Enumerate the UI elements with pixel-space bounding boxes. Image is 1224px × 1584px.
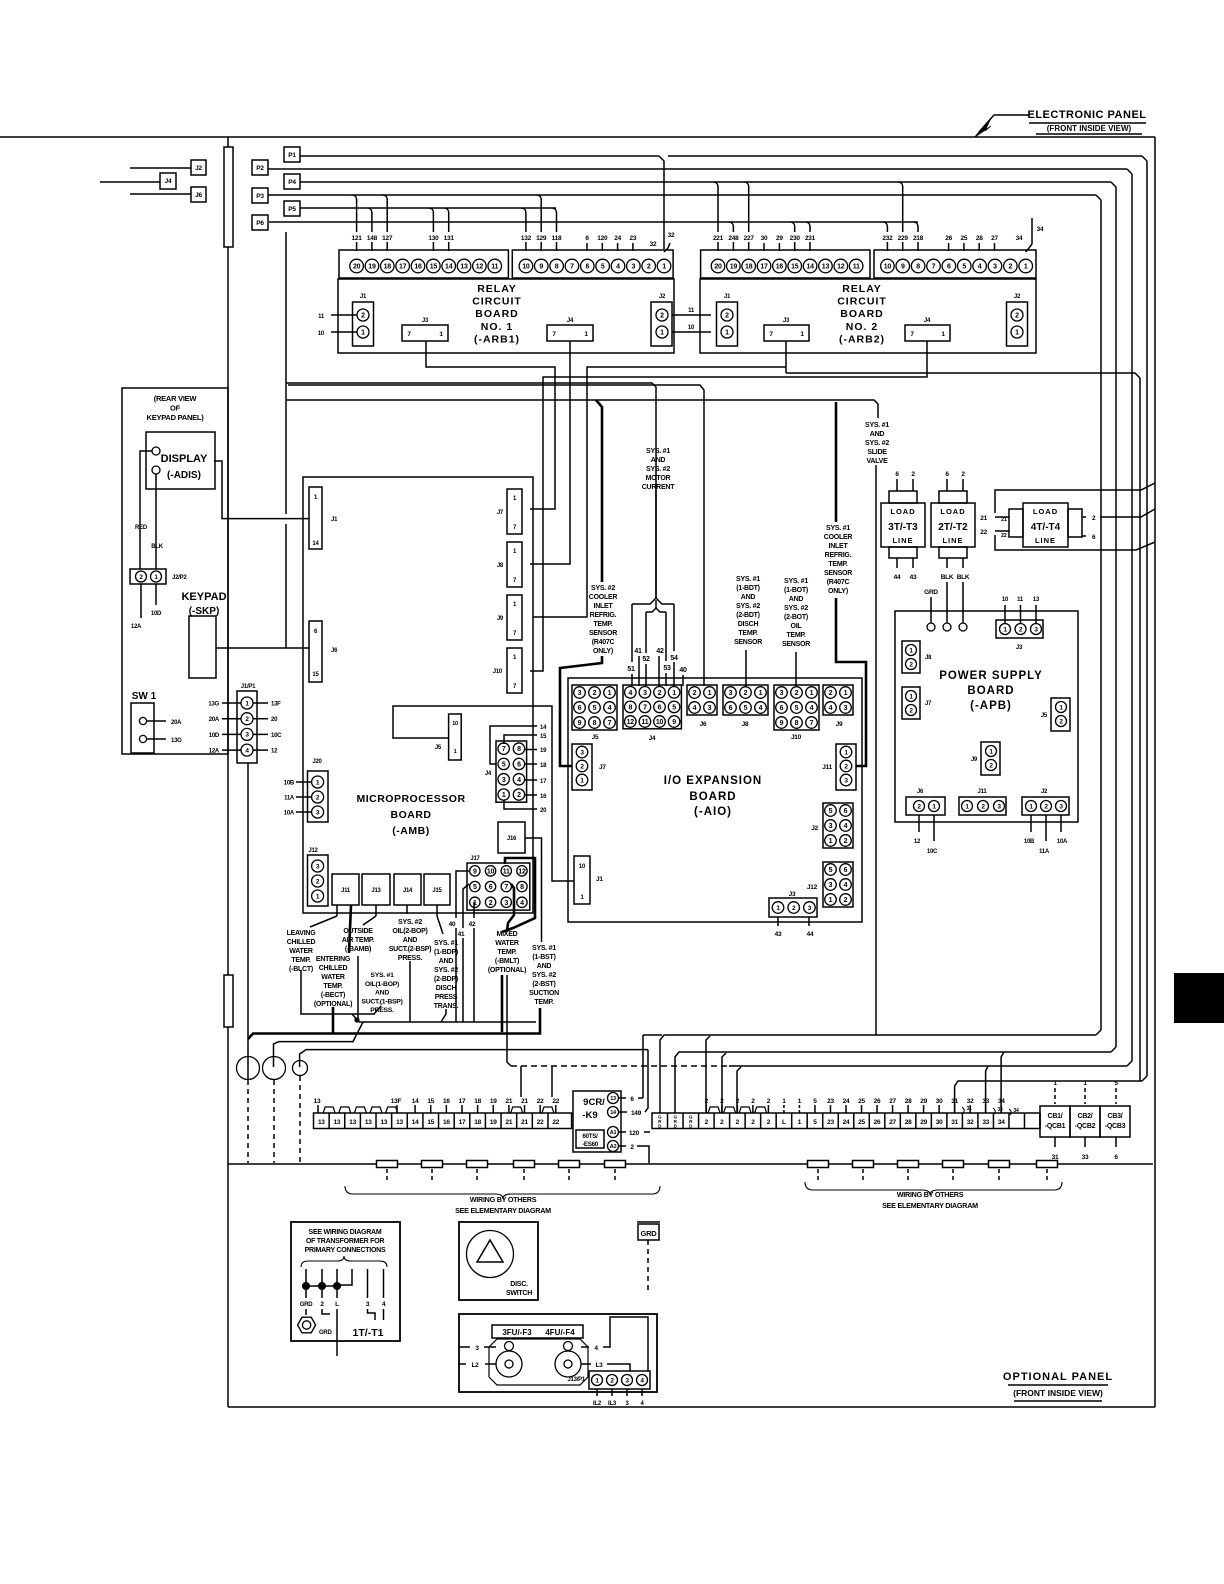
- connector J4 io: [623, 685, 681, 729]
- svg-text:J2: J2: [659, 294, 666, 300]
- svg-text:28: 28: [905, 1119, 912, 1126]
- wire disch press sensor: [441, 1009, 446, 1022]
- svg-text:J4: J4: [567, 318, 574, 324]
- wire J15 stub: [436, 905, 438, 916]
- svg-text:J4: J4: [924, 318, 931, 324]
- svg-text:BLK: BLK: [941, 574, 954, 581]
- svg-text:MICROPROCESSOR: MICROPROCESSOR: [356, 793, 465, 805]
- connector J1 io: [574, 856, 590, 904]
- wire 10 J2b1 to J1b2: [672, 331, 711, 333]
- wire A2 to 2: [619, 1145, 626, 1147]
- svg-text:POWER SUPPLY: POWER SUPPLY: [939, 670, 1043, 682]
- plug P3: [252, 188, 268, 203]
- svg-text:1: 1: [844, 690, 848, 697]
- svg-text:PRESS: PRESS: [435, 994, 458, 1001]
- svg-text:22: 22: [537, 1098, 544, 1105]
- svg-text:KEYPAD: KEYPAD: [181, 591, 226, 603]
- svg-text:GRD: GRD: [924, 589, 938, 596]
- wire mixed water optional lead: [507, 975, 511, 1066]
- svg-text:J6: J6: [195, 192, 202, 199]
- svg-text:6: 6: [844, 867, 848, 874]
- svg-text:118: 118: [552, 235, 562, 242]
- wire right vertical P4: [1115, 187, 1117, 1047]
- svg-text:40: 40: [679, 667, 687, 674]
- svg-text:4: 4: [844, 823, 848, 830]
- svg-text:AND: AND: [439, 958, 454, 965]
- svg-text:1: 1: [361, 330, 365, 337]
- svg-text:AND: AND: [375, 990, 389, 997]
- svg-text:3: 3: [708, 705, 712, 712]
- field wiring fuses: [377, 1161, 398, 1168]
- svg-text:7: 7: [502, 746, 506, 753]
- svg-text:13: 13: [610, 1096, 616, 1102]
- wire 51 to J4 io: [631, 604, 633, 662]
- fuse block outline: [489, 1339, 588, 1385]
- svg-text:30: 30: [936, 1098, 943, 1105]
- svg-text:SENSOR: SENSOR: [734, 639, 762, 646]
- svg-text:23: 23: [827, 1098, 834, 1105]
- wire T4 loop top: [995, 483, 1155, 513]
- svg-text:15: 15: [427, 1098, 434, 1105]
- svg-text:TEMP.: TEMP.: [593, 621, 613, 628]
- svg-text:LINE: LINE: [942, 536, 963, 545]
- svg-text:43: 43: [910, 574, 917, 581]
- svg-text:3: 3: [829, 823, 833, 830]
- svg-text:19: 19: [540, 748, 547, 754]
- svg-text:26: 26: [874, 1098, 881, 1105]
- svg-text:22: 22: [1001, 533, 1007, 539]
- svg-text:16: 16: [443, 1119, 450, 1126]
- wire drop 33 bottom: [986, 1066, 988, 1113]
- wire 42 to J4 io: [658, 656, 660, 686]
- wire J14 stub: [406, 905, 408, 914]
- wire drop 127: [382, 195, 387, 200]
- dashed cable 1: [247, 1080, 249, 1163]
- svg-text:SUCT.(2-BSP): SUCT.(2-BSP): [389, 946, 432, 953]
- svg-text:(1-BOT): (1-BOT): [784, 587, 808, 594]
- svg-text:4: 4: [978, 264, 982, 271]
- breaker CB1/-QCB1: [1040, 1106, 1070, 1137]
- svg-text:SYS. #1: SYS. #1: [784, 578, 808, 585]
- svg-text:BOARD: BOARD: [967, 685, 1014, 697]
- relay board 2 body: [700, 279, 1036, 353]
- svg-text:(1-BDP): (1-BDP): [434, 949, 458, 956]
- svg-text:41: 41: [634, 648, 642, 655]
- svg-text:(2-BDP): (2-BDP): [434, 976, 458, 983]
- svg-text:J7: J7: [599, 764, 606, 771]
- connector J6 AMB: [309, 621, 322, 682]
- power supply board body: [895, 611, 1078, 822]
- connector J8 io: [723, 685, 768, 715]
- connector J9 AMB: [507, 595, 522, 640]
- svg-text:P4: P4: [288, 179, 296, 186]
- svg-text:LEAVING: LEAVING: [287, 930, 317, 937]
- svg-text:44: 44: [807, 931, 814, 938]
- display module -ADIS: [146, 432, 215, 489]
- svg-text:OUTSIDE: OUTSIDE: [343, 928, 373, 935]
- svg-text:121: 121: [352, 235, 363, 242]
- svg-text:1: 1: [725, 330, 729, 337]
- svg-text:J11: J11: [978, 789, 988, 795]
- svg-text:21: 21: [521, 1119, 528, 1126]
- svg-text:RELAY: RELAY: [477, 283, 517, 295]
- svg-text:54: 54: [670, 655, 678, 662]
- wire motor current fork: [655, 490, 657, 598]
- wire drop 34 bottom: [1001, 1052, 1004, 1113]
- svg-text:31: 31: [966, 1106, 972, 1112]
- wire 6 from T4: [1082, 535, 1086, 537]
- wire display to AMB J1: [214, 461, 309, 519]
- wire 41 to J4 io: [638, 656, 640, 686]
- svg-text:42: 42: [656, 648, 664, 655]
- svg-text:34: 34: [1037, 226, 1044, 233]
- svg-text:AIR TEMP.: AIR TEMP.: [342, 937, 375, 944]
- svg-text:OIL(2-BOP): OIL(2-BOP): [392, 928, 427, 935]
- brace right group: [805, 1182, 1062, 1195]
- svg-text:LOAD: LOAD: [890, 507, 915, 516]
- svg-text:SLIDE: SLIDE: [867, 449, 887, 456]
- svg-text:9: 9: [672, 719, 676, 726]
- svg-text:J9: J9: [497, 616, 504, 622]
- wire to J6: [130, 193, 191, 195]
- svg-text:J5: J5: [1041, 713, 1048, 719]
- svg-text:6: 6: [489, 884, 493, 891]
- connector J11 io: [836, 744, 856, 790]
- svg-text:12: 12: [271, 749, 278, 755]
- svg-text:4FU/-F4: 4FU/-F4: [545, 1328, 575, 1337]
- wire 2 from T4: [1082, 516, 1086, 518]
- svg-text:5: 5: [795, 705, 799, 712]
- svg-text:17: 17: [459, 1119, 466, 1126]
- svg-text:11: 11: [491, 264, 498, 271]
- svg-text:J7: J7: [497, 510, 504, 516]
- svg-text:VALVE: VALVE: [866, 458, 888, 465]
- svg-text:CHILLED: CHILLED: [287, 939, 316, 946]
- svg-text:-ES60: -ES60: [582, 1141, 599, 1148]
- svg-text:J6: J6: [700, 721, 707, 728]
- svg-text:2: 2: [1009, 264, 1013, 271]
- svg-text:J5: J5: [592, 734, 599, 741]
- fuse labels box: [492, 1325, 583, 1338]
- svg-text:J17: J17: [470, 856, 480, 862]
- svg-text:12: 12: [914, 839, 921, 845]
- svg-text:-QCB1: -QCB1: [1045, 1123, 1066, 1130]
- connector J6 io: [687, 685, 717, 715]
- wire conduit thick bus to hole 1: [248, 1008, 540, 1039]
- wire bottom panel border: [228, 1406, 1155, 1408]
- svg-text:SEE ELEMENTARY DIAGRAM: SEE ELEMENTARY DIAGRAM: [882, 1201, 978, 1210]
- svg-text:230: 230: [790, 235, 801, 242]
- wire BLK to psb: [946, 582, 948, 623]
- wire hole3 to 9CR 14: [300, 1050, 640, 1067]
- wire field wiring bus: [228, 1163, 1153, 1165]
- svg-text:SYS. #2: SYS. #2: [591, 585, 615, 592]
- svg-text:1: 1: [708, 690, 712, 697]
- svg-text:10C: 10C: [927, 849, 938, 855]
- svg-text:9: 9: [473, 868, 477, 875]
- svg-text:19: 19: [490, 1098, 497, 1105]
- svg-text:20: 20: [271, 717, 278, 723]
- terminal strip 2: [652, 1113, 1040, 1129]
- svg-text:12: 12: [476, 264, 484, 271]
- svg-text:33: 33: [982, 1119, 989, 1126]
- svg-text:SWITCH: SWITCH: [506, 1290, 532, 1297]
- svg-text:31: 31: [951, 1098, 958, 1105]
- svg-text:52: 52: [642, 656, 650, 663]
- svg-text:6: 6: [585, 264, 589, 271]
- svg-text:33: 33: [1082, 1154, 1089, 1161]
- svg-text:TEMP.: TEMP.: [291, 957, 311, 964]
- cable hole 3: [293, 1061, 308, 1076]
- svg-text:WIRING BY OTHERS: WIRING BY OTHERS: [470, 1195, 537, 1204]
- connector J7 psb: [902, 687, 920, 719]
- wire riser 2b: [722, 1053, 726, 1113]
- svg-text:CIRCUIT: CIRCUIT: [837, 296, 887, 308]
- 1T brace: [301, 1256, 387, 1267]
- svg-text:1: 1: [829, 897, 833, 904]
- svg-text:PRESS.: PRESS.: [398, 955, 422, 962]
- connector J9 io: [823, 685, 853, 715]
- svg-text:OIL(1-BOP): OIL(1-BOP): [365, 981, 399, 988]
- wire drop 218: [913, 222, 918, 227]
- plug P2: [252, 160, 268, 175]
- wire top panel border: [0, 136, 1155, 138]
- svg-text:1: 1: [608, 690, 612, 697]
- svg-text:11A: 11A: [1039, 849, 1050, 855]
- wire J4b2 to AMB J10: [530, 341, 927, 671]
- svg-text:28: 28: [976, 235, 983, 242]
- svg-text:SENSOR: SENSOR: [782, 641, 810, 648]
- svg-text:J15: J15: [432, 888, 442, 894]
- svg-text:J13: J13: [371, 888, 381, 894]
- fuse 3FU: [496, 1351, 522, 1377]
- svg-text:WIRING BY OTHERS: WIRING BY OTHERS: [897, 1190, 964, 1199]
- svg-text:SYS. #2: SYS. #2: [532, 972, 556, 979]
- svg-text:(FRONT INSIDE VIEW): (FRONT INSIDE VIEW): [1013, 1388, 1103, 1398]
- svg-text:7: 7: [504, 884, 508, 891]
- svg-text:10: 10: [688, 325, 695, 331]
- svg-text:5: 5: [473, 884, 477, 891]
- wire entering sensor thick: [332, 1007, 335, 1033]
- wire drop 231: [805, 222, 810, 227]
- wire RED: [140, 451, 152, 569]
- svg-text:COOLER: COOLER: [824, 534, 853, 541]
- svg-text:8: 8: [520, 884, 524, 891]
- svg-text:120: 120: [597, 235, 608, 242]
- svg-text:11: 11: [688, 308, 695, 314]
- svg-text:CB1/: CB1/: [1048, 1113, 1063, 1120]
- svg-text:131: 131: [444, 235, 455, 242]
- svg-text:TEMP.: TEMP.: [323, 983, 343, 990]
- svg-text:53: 53: [663, 665, 671, 672]
- svg-text:8: 8: [916, 264, 920, 271]
- svg-text:10: 10: [522, 264, 530, 271]
- svg-text:2: 2: [658, 690, 662, 697]
- svg-text:7: 7: [932, 264, 936, 271]
- svg-text:J8: J8: [742, 721, 749, 728]
- svg-text:4: 4: [829, 705, 833, 712]
- svg-text:34: 34: [998, 1098, 1005, 1105]
- wire P5 bus: [300, 207, 556, 209]
- connector J2 io: [823, 803, 853, 848]
- svg-text:ONLY): ONLY): [828, 588, 848, 595]
- svg-text:1: 1: [759, 690, 763, 697]
- svg-text:1: 1: [1015, 330, 1019, 337]
- wire L3 from fuse: [581, 1363, 591, 1365]
- wire 53 to J4 io: [665, 612, 667, 661]
- svg-text:16: 16: [414, 264, 422, 271]
- svg-text:(2-BOT): (2-BOT): [784, 614, 808, 621]
- svg-text:WATER: WATER: [289, 948, 313, 955]
- svg-text:J2: J2: [811, 825, 818, 832]
- svg-text:P3: P3: [256, 193, 264, 200]
- wire right vertical P3: [1100, 200, 1102, 1030]
- svg-text:BOARD: BOARD: [840, 308, 884, 320]
- connector J7 io: [572, 744, 592, 790]
- wire bottom bus y1052: [675, 1052, 1111, 1113]
- svg-text:9: 9: [780, 720, 784, 727]
- svg-text:2: 2: [361, 313, 365, 320]
- svg-text:24: 24: [614, 235, 621, 242]
- svg-text:11: 11: [853, 264, 860, 271]
- svg-text:6: 6: [578, 705, 582, 712]
- wire 40 to J4 io: [682, 675, 684, 686]
- wire hole2 collector: [274, 1022, 364, 1067]
- svg-text:(2-BST): (2-BST): [532, 981, 555, 988]
- svg-text:(FRONT INSIDE VIEW): (FRONT INSIDE VIEW): [1047, 124, 1132, 133]
- svg-text:29: 29: [776, 235, 783, 242]
- svg-text:TEMP.: TEMP.: [828, 561, 848, 568]
- svg-text:SYS. #1: SYS. #1: [434, 940, 458, 947]
- svg-text:IL2: IL2: [593, 1401, 602, 1407]
- svg-text:21: 21: [506, 1119, 513, 1126]
- svg-text:30: 30: [761, 235, 768, 242]
- svg-text:GRD: GRD: [641, 1229, 658, 1238]
- wire outside sensor: [357, 956, 359, 1022]
- svg-text:17: 17: [540, 779, 547, 785]
- svg-text:L: L: [782, 1119, 786, 1126]
- svg-text:11: 11: [318, 314, 325, 320]
- svg-text:32: 32: [967, 1098, 974, 1105]
- svg-text:LINE: LINE: [892, 536, 913, 545]
- svg-text:21: 21: [1001, 517, 1007, 523]
- svg-text:CURRENT: CURRENT: [642, 484, 675, 491]
- cable hole 2: [263, 1057, 286, 1080]
- svg-text:25: 25: [858, 1119, 865, 1126]
- svg-text:9: 9: [539, 264, 543, 271]
- wire P2 bus: [268, 168, 1127, 170]
- svg-text:3FU/-F3: 3FU/-F3: [502, 1328, 532, 1337]
- svg-text:12A: 12A: [131, 624, 142, 630]
- svg-text:INLET: INLET: [594, 603, 614, 610]
- svg-text:5: 5: [829, 867, 833, 874]
- svg-text:43: 43: [775, 931, 782, 938]
- plug P5: [284, 201, 300, 216]
- wire 34 riser: [1031, 218, 1033, 244]
- svg-text:27: 27: [991, 235, 998, 242]
- svg-text:P1: P1: [288, 152, 296, 159]
- svg-text:3T/-T3: 3T/-T3: [888, 522, 918, 533]
- svg-text:SENSOR: SENSOR: [589, 630, 617, 637]
- svg-text:J1: J1: [596, 876, 603, 883]
- wire mixed water dashed: [511, 1065, 729, 1067]
- svg-text:26: 26: [945, 235, 952, 242]
- relay 9CR/-K9: [573, 1091, 621, 1152]
- svg-text:(R407C: (R407C: [827, 579, 850, 586]
- wire 10D from J2/P2: [155, 584, 157, 605]
- svg-text:4: 4: [844, 882, 848, 889]
- svg-text:7: 7: [570, 264, 574, 271]
- svg-text:24: 24: [843, 1119, 850, 1126]
- connector J13 AMB: [362, 874, 390, 905]
- svg-text:J11: J11: [341, 888, 351, 894]
- svg-text:J4: J4: [649, 735, 656, 742]
- svg-text:33: 33: [997, 1107, 1003, 1113]
- svg-text:17: 17: [459, 1098, 466, 1105]
- svg-text:1: 1: [454, 749, 457, 755]
- svg-text:148: 148: [367, 235, 378, 242]
- svg-text:SYS. #2: SYS. #2: [736, 603, 760, 610]
- cable hole 1: [237, 1057, 260, 1080]
- svg-text:J1: J1: [360, 294, 367, 300]
- svg-text:30: 30: [936, 1119, 943, 1126]
- svg-text:3: 3: [993, 264, 997, 271]
- svg-text:J9: J9: [836, 721, 843, 728]
- svg-text:1: 1: [660, 330, 664, 337]
- svg-text:248: 248: [728, 235, 739, 242]
- wire oil temp sensor: [795, 652, 797, 686]
- wire 9CR pin13 to 6: [619, 1097, 626, 1099]
- io board body: [568, 678, 862, 922]
- wire mixed water lead thick: [501, 975, 504, 1032]
- svg-text:5: 5: [601, 264, 605, 271]
- svg-text:J14: J14: [403, 888, 413, 894]
- svg-text:SYS. #1: SYS. #1: [826, 525, 850, 532]
- svg-text:J1: J1: [724, 294, 731, 300]
- svg-text:J8: J8: [497, 563, 504, 569]
- breaker CB2/-QCB2: [1070, 1106, 1100, 1137]
- svg-text:GRD: GRD: [300, 1302, 314, 1308]
- wire 12A from J2/P2: [140, 584, 142, 618]
- svg-text:44: 44: [894, 574, 901, 581]
- svg-text:3: 3: [780, 690, 784, 697]
- svg-text:5: 5: [502, 761, 506, 768]
- svg-text:15: 15: [791, 264, 799, 271]
- 1T primary wires: [305, 1269, 307, 1298]
- plug P6: [252, 215, 268, 230]
- wire drop 121: [352, 195, 357, 200]
- microprocessor board body: [303, 477, 533, 913]
- svg-text:19: 19: [368, 264, 376, 271]
- svg-text:15: 15: [540, 734, 547, 740]
- connector J12 io: [823, 862, 853, 907]
- svg-text:CHILLED: CHILLED: [319, 965, 348, 972]
- svg-text:23: 23: [827, 1119, 834, 1126]
- connector J16 AMB: [498, 822, 525, 853]
- svg-text:18: 18: [745, 264, 753, 271]
- svg-text:J2/P2: J2/P2: [172, 575, 187, 581]
- svg-text:17: 17: [760, 264, 768, 271]
- wire 3 into fuse: [459, 1346, 470, 1348]
- svg-text:20: 20: [714, 264, 722, 271]
- wire 44 stub: [808, 917, 810, 926]
- svg-text:AND: AND: [651, 457, 666, 464]
- svg-text:13: 13: [380, 1119, 387, 1126]
- svg-text:J2: J2: [1014, 294, 1021, 300]
- svg-text:5: 5: [962, 264, 966, 271]
- wire J4b1 to AMB J8: [530, 341, 570, 564]
- svg-text:P5: P5: [288, 206, 296, 213]
